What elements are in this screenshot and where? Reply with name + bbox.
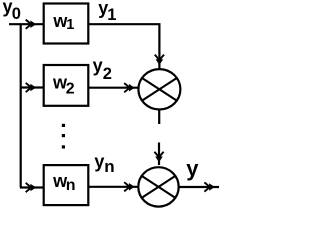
svg-text:y: y: [186, 156, 199, 181]
wire branch into W2: [20, 86, 44, 88]
arrowhead into M1 top: [155, 55, 164, 65]
svg-text:1: 1: [107, 6, 116, 24]
svg-text:2: 2: [103, 65, 112, 83]
svg-text:1: 1: [66, 17, 74, 33]
wire branch into Wn: [20, 186, 44, 188]
wire y1 from W1 to elbow and down to multiplier M1: [88, 24, 159, 68]
wire M1 to M2 lower segment: [158, 143, 160, 166]
wire input y0 horizontal: [9, 23, 44, 25]
wire yn from Wn to multiplier M2: [88, 186, 138, 188]
label y1: [98, 0, 116, 24]
arrowhead into M1 left: [124, 83, 134, 92]
arrowhead output: [204, 182, 214, 191]
arrowhead into M2 left: [124, 182, 134, 191]
svg-text:0: 0: [12, 5, 21, 23]
multiplier M2: [138, 167, 178, 206]
wire M1 to M2 upper segment: [158, 110, 160, 124]
block Wn: [44, 165, 89, 205]
svg-text:n: n: [104, 157, 114, 176]
wire output y: [180, 186, 220, 188]
wire y2 from W2 to multiplier M1: [88, 87, 139, 89]
label y0: [3, 0, 21, 23]
label y output: [186, 156, 199, 181]
arrowhead into Wn: [26, 183, 36, 192]
svg-text:n: n: [66, 177, 76, 194]
arrowhead into M2 top: [154, 152, 163, 162]
label y2: [93, 56, 112, 84]
label yn: [94, 152, 114, 176]
svg-text:y: y: [93, 56, 103, 76]
multiplier M1: [138, 69, 180, 109]
arrowhead into W2: [26, 83, 36, 92]
arrowhead into W1: [26, 20, 36, 29]
block W1: [44, 4, 89, 44]
vertical ellipsis dots: [62, 124, 65, 149]
svg-text:2: 2: [66, 81, 75, 98]
block W2: [44, 65, 89, 106]
svg-text:y: y: [94, 152, 104, 172]
wire left vertical bus: [20, 24, 22, 187]
